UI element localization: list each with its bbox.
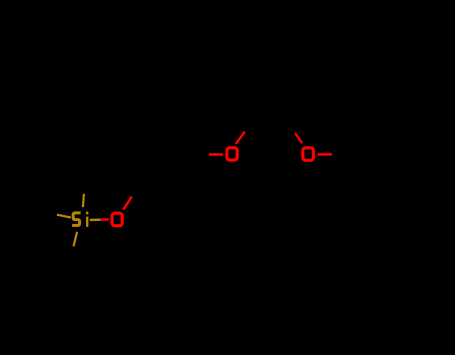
wire Si methyl bond up [83,194,84,207]
wire Si methyl bond down-left [74,232,78,247]
wire C-O3 bond oxygen half [295,133,302,143]
wire O2-C bond oxygen half [236,132,245,144]
wire C-O2 bond oxygen half [209,153,223,156]
wire Si-O bond oxygen half [101,218,109,220]
wire O3-C bond oxygen half [318,153,332,156]
wire Si-O bond silicon half [90,218,101,221]
wire Si methyl bond left [57,215,71,218]
wire O1-C bond oxygen half [123,196,131,209]
node O3 label (right aryl ether oxygen) [303,148,314,161]
node Si label [72,212,88,227]
node O1 label (silyl ether oxygen) [112,213,122,226]
node O2 label (left glycol oxygen) [227,148,237,160]
